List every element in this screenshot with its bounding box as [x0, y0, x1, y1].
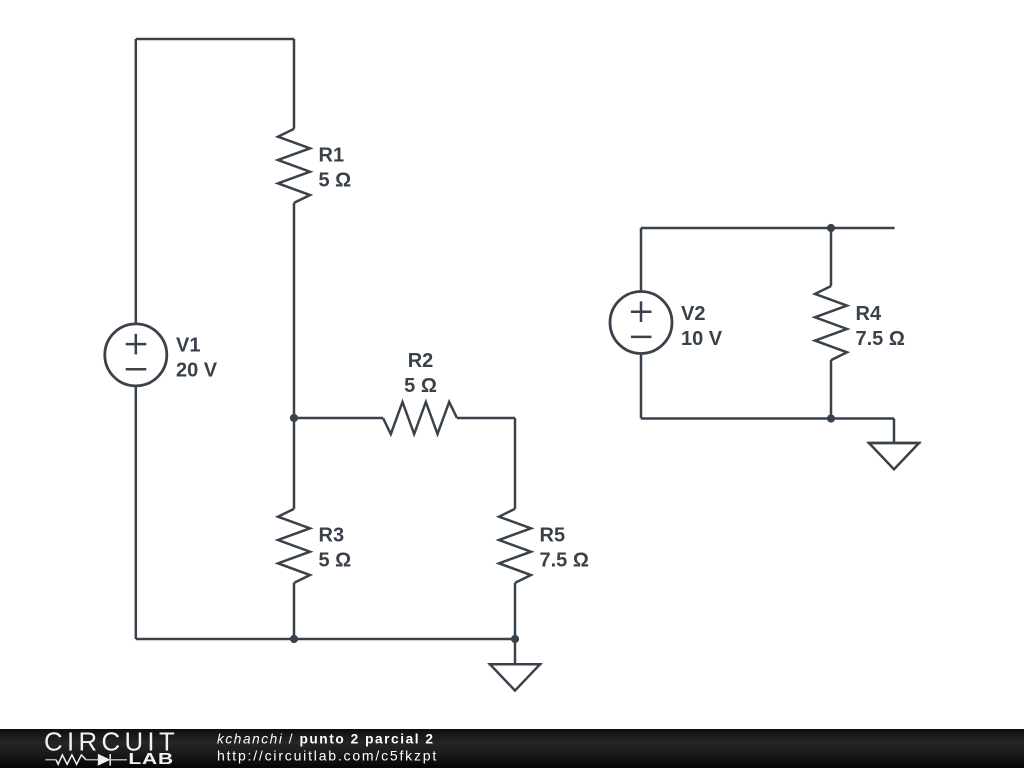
wire: R3 bottom lead	[293, 583, 296, 639]
wire: ground stub below bottom rail	[514, 639, 517, 664]
wire: V2 top rail	[641, 227, 895, 230]
svg-text:kchanchi / punto 2 parcial 2: kchanchi / punto 2 parcial 2	[217, 732, 435, 747]
wire: bottom rail	[136, 638, 515, 641]
svg-text:5 Ω: 5 Ω	[404, 375, 437, 397]
ground GND (left circuit)	[489, 664, 542, 690]
wire: top rail of V1 loop (horizontal)	[136, 38, 294, 41]
resistor R2 (5 ohm, horizontal)	[383, 402, 457, 434]
svg-text:5 Ω: 5 Ω	[319, 550, 352, 572]
node B: R3/bottom rail junction (junction dot)	[290, 635, 298, 643]
svg-text:20 V: 20 V	[176, 359, 218, 381]
wire: V1 left rail top (vertical)	[135, 39, 138, 324]
wire: V1 bottom lead down left rail	[135, 386, 138, 639]
node D: R4 bottom junction (junction dot)	[827, 414, 835, 422]
wire: V2 bottom rail	[641, 417, 894, 420]
svg-text:R5: R5	[540, 525, 566, 547]
ground GND (right circuit)	[868, 443, 921, 469]
svg-text:V1: V1	[176, 334, 200, 356]
wire: right ground stub	[893, 419, 896, 444]
resistor R1 (5 ohm, vertical)	[278, 129, 310, 203]
node ground node on bottom rail (junction dot)	[511, 635, 519, 643]
resistor R3 (5 ohm, vertical)	[278, 509, 310, 583]
svg-text:LAB: LAB	[128, 750, 174, 768]
logo resistor-diode glyph	[45, 754, 127, 766]
wire: R2 right lead	[457, 417, 515, 420]
label R2 value	[404, 350, 437, 397]
svg-text:7.5 Ω: 7.5 Ω	[856, 328, 905, 350]
svg-text:R2: R2	[408, 350, 434, 372]
label R4 value	[856, 303, 905, 350]
label V1 value	[176, 334, 218, 381]
svg-text:R4: R4	[856, 303, 882, 325]
node A: R1/R2/R3 junction (junction dot)	[290, 414, 298, 422]
wire: V2 top lead	[640, 228, 643, 292]
label R3 value	[319, 525, 352, 572]
svg-text:R3: R3	[319, 525, 345, 547]
label V2 value	[681, 303, 723, 350]
label R1 value	[319, 145, 352, 192]
label R5 value	[540, 525, 589, 572]
resistor R5 (7.5 ohm, vertical)	[499, 509, 531, 583]
resistor R4 (7.5 ohm, vertical)	[815, 286, 847, 360]
wire: R3 top lead	[293, 418, 296, 509]
footer banner background	[0, 729, 1024, 768]
wire: R4 top lead	[830, 228, 833, 286]
svg-text:10 V: 10 V	[681, 328, 723, 350]
node C: R4 top junction (junction dot)	[827, 224, 835, 232]
wire: R4 bottom lead	[830, 360, 833, 418]
wire: R2 left lead	[294, 417, 383, 420]
svg-text:V2: V2	[681, 303, 705, 325]
wire: R5 bottom lead	[514, 583, 517, 639]
svg-text:7.5 Ω: 7.5 Ω	[540, 550, 589, 572]
wire: right branch down to R5	[514, 418, 517, 509]
svg-text:http://circuitlab.com/c5fkzpt: http://circuitlab.com/c5fkzpt	[217, 748, 438, 764]
wire: R1 bottom lead down to node	[293, 203, 296, 418]
svg-text:5 Ω: 5 Ω	[319, 170, 352, 192]
wire: R1 top lead	[293, 39, 296, 129]
voltage source V1 (20 V)	[105, 324, 167, 386]
voltage source V2 (10 V)	[610, 292, 672, 354]
svg-text:R1: R1	[319, 145, 345, 167]
wire: V2 bottom lead	[640, 353, 643, 418]
